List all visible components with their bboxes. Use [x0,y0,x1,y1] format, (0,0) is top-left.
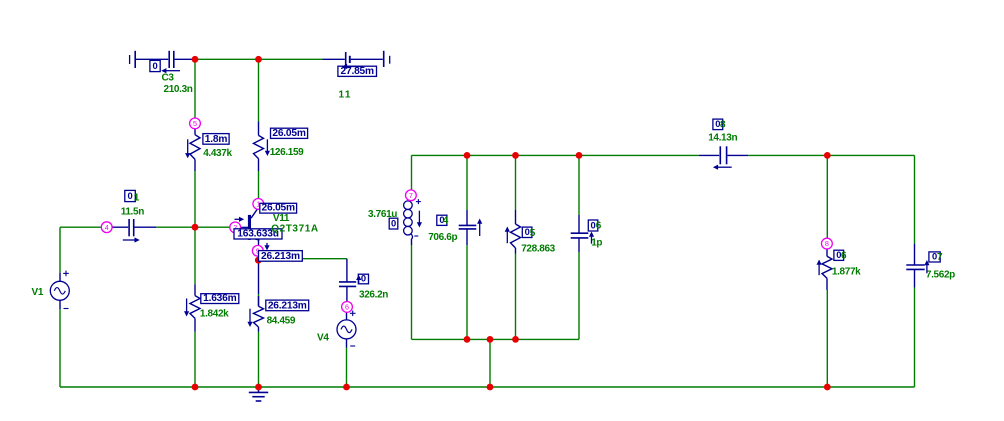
svg-text:1.842k: 1.842k [200,309,229,320]
svg-text:7.562p: 7.562p [926,270,955,281]
svg-text:V4: V4 [317,333,329,344]
svg-text:V11: V11 [273,213,290,224]
svg-text:6: 6 [345,303,349,312]
svg-text:1.8m: 1.8m [205,134,228,145]
svg-text:4: 4 [105,223,109,232]
svg-text:210.3n: 210.3n [164,84,193,95]
svg-text:0: 0 [361,272,366,283]
svg-text:11.5n: 11.5n [121,207,145,218]
svg-text:728.863: 728.863 [521,244,555,255]
svg-text:7: 7 [409,191,413,200]
svg-text:706.6p: 706.6p [428,232,457,243]
svg-text:C3: C3 [162,73,175,84]
svg-text:26.05m: 26.05m [272,128,305,139]
svg-text:26.213m: 26.213m [268,300,307,311]
svg-text:5: 5 [530,228,536,239]
svg-text:5: 5 [193,119,197,128]
svg-text:Q2T371A: Q2T371A [271,224,319,235]
svg-text:11: 11 [339,90,352,101]
svg-text:0: 0 [153,60,158,71]
svg-text:0: 0 [128,190,133,201]
svg-text:8: 8 [825,239,829,248]
svg-text:1.636m: 1.636m [203,293,236,304]
svg-text:14.13n: 14.13n [708,133,737,144]
svg-text:26.213m: 26.213m [261,251,300,262]
svg-text:1: 1 [134,193,140,204]
svg-text:4.437k: 4.437k [203,148,232,159]
svg-text:126.159: 126.159 [270,147,304,158]
svg-text:3.761u: 3.761u [368,209,397,220]
svg-text:326.2n: 326.2n [359,290,388,301]
svg-text:6: 6 [841,251,847,262]
svg-text:8: 8 [720,120,726,131]
svg-text:1p: 1p [591,238,602,249]
svg-text:7: 7 [937,252,943,263]
svg-text:84.459: 84.459 [267,316,296,327]
svg-text:V1: V1 [32,287,44,298]
svg-text:1.877k: 1.877k [832,267,861,278]
svg-text:4: 4 [443,216,449,227]
svg-text:6: 6 [596,221,602,232]
svg-text:0: 0 [591,220,596,231]
